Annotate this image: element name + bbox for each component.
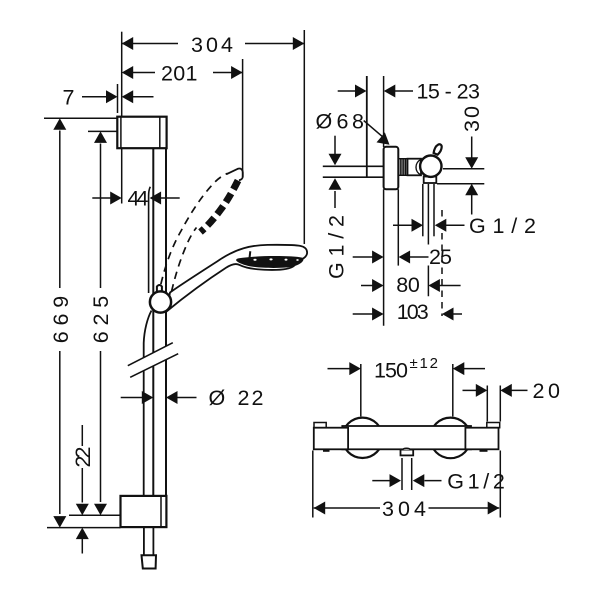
dimension 150 bbox=[328, 368, 352, 370]
hand shower solid bbox=[167, 245, 308, 312]
hand shower dashed position bbox=[160, 169, 243, 292]
rail tube left line bbox=[152, 148, 154, 495]
25 arrows bbox=[372, 251, 384, 264]
wire: ext left 304 bbox=[312, 451, 314, 518]
svg-text:80: 80 bbox=[396, 273, 420, 297]
wire: extension line x=304.3 (304 right) bbox=[303, 30, 305, 244]
dimension 80 bbox=[361, 285, 373, 287]
wire: extension line x=121.7 below bracket for 44 bbox=[121, 148, 123, 203]
G1/2 bottom arrows bbox=[390, 474, 402, 487]
dashed head spray face dark band bbox=[201, 181, 239, 233]
wire: face reference line bbox=[383, 76, 385, 147]
Ø22 arrows bbox=[142, 391, 154, 404]
holder ball bbox=[420, 156, 441, 177]
svg-text:G1/2: G1/2 bbox=[469, 214, 536, 238]
arrows bottom view bbox=[314, 362, 512, 514]
15-23 arrows bbox=[355, 85, 367, 98]
outlet bump bbox=[403, 448, 410, 449]
connector block bbox=[408, 159, 422, 176]
texts main view bbox=[49, 33, 264, 468]
hose below bottom bracket bbox=[144, 527, 154, 555]
7 arrows bbox=[106, 90, 118, 103]
wire: axis line for 80 bbox=[427, 184, 429, 296]
svg-text:150: 150 bbox=[374, 359, 408, 383]
arc behind ball bbox=[416, 160, 421, 176]
knurled section bbox=[398, 159, 407, 176]
dashed head tip solid bbox=[227, 169, 243, 181]
G1/2 left arrows bbox=[329, 154, 342, 166]
bottom bracket bbox=[121, 496, 167, 527]
44 arrows bbox=[110, 192, 122, 205]
dimension 22 vertical bbox=[81, 425, 83, 446]
rail and components bbox=[142, 148, 167, 568]
dimension G1/2 mid bbox=[393, 224, 413, 226]
svg-text:44: 44 bbox=[128, 187, 149, 211]
svg-text:201: 201 bbox=[161, 62, 198, 86]
arrows main view bbox=[53, 37, 304, 539]
dimension 15-23 bbox=[338, 90, 356, 92]
wire: hand shower axis line x=148.6 bbox=[149, 187, 151, 293]
right nub bbox=[480, 450, 488, 452]
arrows side view bbox=[329, 85, 479, 321]
svg-text:22: 22 bbox=[71, 447, 95, 468]
shower body outline bbox=[167, 245, 308, 312]
wire: G1/2 ext lines below outlet bbox=[401, 458, 403, 490]
hose end fitting bbox=[142, 555, 157, 568]
svg-text:669: 669 bbox=[49, 296, 73, 344]
svg-text:625: 625 bbox=[89, 296, 113, 344]
left nub bbox=[323, 450, 330, 452]
left end cap bbox=[314, 428, 348, 450]
dashed outline right bbox=[172, 228, 197, 292]
svg-text:103: 103 bbox=[397, 300, 429, 324]
dimension 25 bbox=[353, 256, 373, 258]
wire: extension line x=121.7 (rail ref) bbox=[121, 32, 123, 117]
dimension 669 vertical bbox=[59, 131, 61, 289]
svg-text:Ø: Ø bbox=[209, 386, 226, 410]
wire: extension line y=118.3 (top of rail, 669) bbox=[44, 117, 117, 119]
spray face dark band bbox=[236, 256, 303, 268]
thermostat components bbox=[314, 418, 500, 459]
Ø68 leader arrow bbox=[377, 132, 394, 149]
svg-text:25: 25 bbox=[429, 245, 452, 269]
wire: extension line x=242.6 (201 right) bbox=[242, 59, 244, 177]
dimension G1/2 bottom bbox=[372, 480, 390, 482]
wire: extension line y=515 (625 bottom) bbox=[69, 514, 121, 516]
bottom outlet bbox=[401, 450, 414, 456]
669 arrows bbox=[53, 118, 66, 130]
wire: ext lines 20 bbox=[486, 386, 488, 422]
625 arrows bbox=[94, 131, 107, 143]
rail tube right line bbox=[165, 148, 167, 495]
304 arrows bbox=[122, 37, 134, 50]
left top tab bbox=[314, 423, 326, 428]
wire: extension line y=131.4 (625) bbox=[88, 130, 117, 132]
svg-text:Ø: Ø bbox=[316, 110, 333, 134]
left escutcheon circle bbox=[342, 418, 382, 458]
svg-text:7: 7 bbox=[63, 86, 75, 110]
svg-text:304: 304 bbox=[382, 497, 426, 521]
texts bottom view bbox=[374, 355, 560, 521]
wire: ext right 304 below bbox=[499, 451, 501, 518]
dimension 30 ext lines bbox=[443, 168, 484, 170]
side view components bbox=[384, 144, 442, 189]
right end cap bbox=[465, 428, 498, 450]
knob on ball bbox=[434, 144, 442, 154]
wire: ext line left circle center bbox=[360, 364, 362, 417]
22 arrows bbox=[76, 504, 89, 516]
holder knob bbox=[157, 285, 162, 293]
wire: extension line x=117.5 (7 left) bbox=[117, 84, 119, 113]
wire: extension line y=527.5 (669 bottom) bbox=[47, 527, 121, 529]
svg-text:304: 304 bbox=[191, 33, 233, 57]
dimension 304 top bbox=[122, 43, 178, 45]
dashed outline left bbox=[160, 173, 228, 288]
201 arrows bbox=[122, 66, 134, 79]
svg-text:±12: ±12 bbox=[410, 355, 439, 372]
dimension 201 bbox=[131, 72, 155, 74]
hose along rail bbox=[144, 311, 152, 496]
dimension 7 bbox=[82, 96, 107, 98]
304 bottom arrows bbox=[314, 502, 326, 515]
supply pipe bbox=[323, 165, 384, 167]
right top tab bbox=[487, 423, 500, 428]
body bar middle bbox=[342, 426, 471, 449]
G1/2 mid arrows bbox=[412, 219, 424, 232]
right escutcheon circle bbox=[430, 418, 471, 459]
holder on rail bbox=[150, 291, 171, 312]
150 arrows bbox=[349, 362, 361, 375]
flange escutcheon bbox=[384, 147, 399, 190]
svg-text:G1/2: G1/2 bbox=[447, 470, 505, 494]
svg-text:15 - 23: 15 - 23 bbox=[417, 80, 481, 104]
wire: ext line right circle center bbox=[452, 364, 454, 417]
103 arrows bbox=[372, 308, 384, 321]
dimension 20 bbox=[463, 389, 478, 391]
wire: flange front line for 25 bbox=[397, 189, 399, 265]
svg-text:G1/2: G1/2 bbox=[325, 215, 349, 279]
break marks on rail bbox=[128, 343, 178, 378]
dimension 103 bbox=[353, 313, 373, 315]
clamp below ball bbox=[424, 177, 437, 184]
leader line Ø68 bbox=[364, 121, 384, 138]
wires below clamp bbox=[422, 184, 424, 236]
texts side view bbox=[316, 80, 537, 325]
20 arrows bbox=[476, 384, 488, 397]
G1/2 left arrows tails bbox=[334, 136, 336, 155]
dimension Ø22 bbox=[121, 397, 143, 399]
30 arrows bbox=[465, 157, 478, 169]
wire: dashed line ball front for 103 bbox=[441, 210, 443, 316]
wire: wall line bbox=[366, 76, 368, 178]
80 arrows bbox=[372, 279, 384, 292]
dimension 44 bbox=[92, 197, 111, 199]
button tick on head bbox=[249, 251, 250, 260]
dimension 625 vertical bbox=[100, 144, 102, 289]
top bracket bbox=[117, 117, 166, 149]
dimension 304 bottom bbox=[314, 507, 380, 509]
